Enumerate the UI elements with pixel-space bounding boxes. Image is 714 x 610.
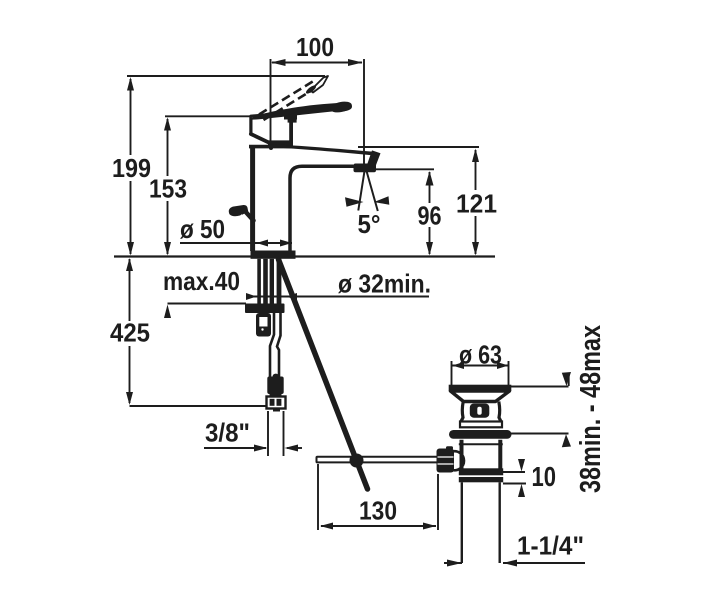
svg-text:5°: 5°	[358, 209, 381, 239]
svg-text:96: 96	[418, 201, 442, 231]
svg-text:38min. - 48max: 38min. - 48max	[575, 325, 607, 493]
svg-text:425: 425	[110, 318, 150, 348]
svg-text:121: 121	[456, 189, 497, 219]
svg-text:ø 50: ø 50	[180, 214, 225, 244]
svg-text:100: 100	[296, 32, 334, 62]
svg-text:ø 63: ø 63	[459, 340, 502, 370]
svg-text:130: 130	[359, 496, 397, 526]
svg-text:1-1/4": 1-1/4"	[517, 531, 584, 561]
svg-text:3/8": 3/8"	[205, 418, 250, 448]
svg-text:199: 199	[112, 153, 151, 183]
svg-text:max.40: max.40	[163, 266, 240, 296]
svg-text:10: 10	[532, 461, 557, 492]
svg-text:153: 153	[149, 174, 187, 204]
svg-text:ø 32min.: ø 32min.	[338, 269, 431, 299]
